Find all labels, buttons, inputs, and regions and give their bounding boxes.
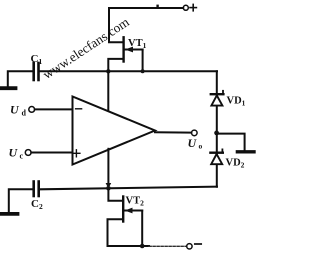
node dot: VT1 source junction [141, 69, 145, 73]
capacitor C2 [1, 182, 43, 214]
transistor VT2 [108, 188, 145, 246]
capacitor C1 [0, 53, 42, 88]
transistor VT1 [108, 37, 146, 71]
C2 plates [32, 182, 35, 197]
diode VD1 [211, 91, 246, 108]
diode VD2 [210, 149, 244, 169]
wire: right rail [216, 71, 218, 186]
op-amp U1 triangle [73, 97, 156, 165]
wire: top rail corner down to VT1 drain [109, 8, 123, 42]
arrowhead at V- pin bus junction [106, 183, 112, 189]
wire: non-inverting input [31, 152, 72, 154]
VT1 channel bar [122, 37, 124, 61]
VD1 triangle [211, 95, 222, 105]
svg-text:U: U [10, 103, 20, 117]
VT2 arrow lead with arrowhead [125, 210, 143, 212]
op-amp minus sign [76, 108, 82, 110]
wire: op-amp V- pin down to lower bus [107, 149, 109, 189]
node dot: output clamp node [214, 131, 219, 136]
wire: node to right ground stub [217, 134, 245, 151]
svg-text:VT1: VT1 [128, 38, 147, 50]
VT2 arrow lead vertical down to bottom rail [141, 211, 143, 247]
VD1 cathode bar [211, 93, 224, 95]
ground (C1) [0, 86, 16, 90]
VT1 source vertical down to upper bus [142, 50, 144, 72]
svg-text:U: U [9, 146, 19, 160]
wire: +V top rail horizontal [109, 7, 183, 9]
svg-text:VT2: VT2 [126, 196, 145, 208]
node dot: VT2 source junction on bottom rail [140, 244, 145, 249]
VD2 triangle [211, 154, 222, 164]
input terminal Ud [29, 107, 35, 113]
svg-text:C2: C2 [31, 198, 43, 211]
svg-text:d: d [22, 109, 27, 118]
wire: inverting input [35, 108, 73, 110]
input terminal Uc [25, 150, 31, 156]
wire: C1 left to ground [8, 71, 33, 86]
wire: op-amp output [155, 131, 191, 133]
VT2 channel bar [122, 197, 124, 222]
node dot: VT1 gate / op-amp V+ junction [106, 69, 110, 73]
svg-text:o: o [199, 142, 203, 151]
speck on top rail [156, 5, 158, 7]
wire: faint dashed continuation of bottom rail [149, 245, 186, 247]
svg-text:U: U [188, 136, 198, 150]
wire: upper bus [40, 70, 217, 72]
ground (C2) [1, 212, 18, 216]
svg-text:C1: C1 [31, 53, 43, 66]
node: output terminal Uo [192, 130, 198, 136]
wire: C2 left to ground [9, 189, 33, 212]
VT2 drain lead [108, 188, 122, 201]
VD2 cathode bar [210, 151, 222, 153]
node dot: op-amp V- / VT2 drain junction [106, 186, 111, 191]
VT2 gate lead [108, 219, 123, 246]
C1 plates [32, 63, 35, 80]
svg-text:VD1: VD1 [227, 96, 246, 108]
VT1 arrow lead (source) with arrowhead [125, 49, 143, 51]
node: - supply terminal [187, 244, 192, 249]
op-amp plus sign [73, 150, 80, 157]
wire: op-amp V+ pin [107, 71, 109, 113]
wire: lower bus [40, 187, 217, 190]
VT1 gate lead [108, 59, 122, 71]
node: + supply terminal [183, 5, 188, 10]
ground bar (right stub) [237, 150, 254, 153]
svg-text:VD2: VD2 [226, 158, 245, 170]
svg-text:c: c [20, 152, 24, 161]
wire: -V bottom rail [108, 245, 150, 247]
